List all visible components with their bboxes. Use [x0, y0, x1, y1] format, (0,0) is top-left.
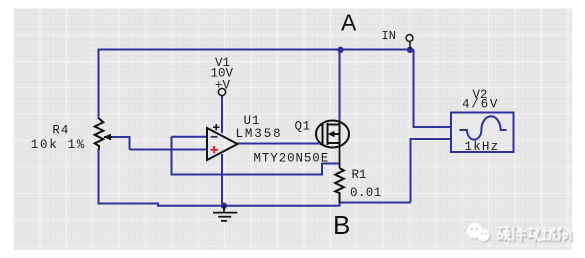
wire inverting input: [172, 136, 207, 138]
transistor Q1 (N-MOSFET): [316, 121, 349, 148]
svg-text:MTY20N50E: MTY20N50E: [254, 152, 330, 166]
watermark text: [497, 227, 573, 243]
svg-text:U1: U1: [244, 114, 261, 128]
wire drain from node A: [339, 50, 341, 123]
wire feedback from source to inverting input: [172, 137, 340, 175]
resistor R1: [335, 168, 344, 203]
wire op-amp output to gate: [237, 143, 319, 145]
wire bottom rail: [98, 203, 411, 206]
wire left vertical upper: [98, 49, 100, 120]
wire non-inverting input: [130, 149, 207, 151]
resistor R4 (potentiometer): [95, 119, 112, 150]
power terminal +V of V1: [218, 88, 225, 95]
svg-text:A: A: [341, 10, 357, 36]
svg-text:R4: R4: [52, 123, 69, 137]
wire right vertical lower: [411, 139, 452, 203]
svg-text:LM358: LM358: [236, 127, 283, 141]
svg-text:R1: R1: [352, 168, 367, 182]
watermark wechat logo: [467, 223, 491, 242]
svg-text:4/6V: 4/6V: [462, 98, 499, 112]
ground: [213, 205, 237, 221]
junction dot at drain node A: [337, 47, 343, 53]
wire left vertical lower: [98, 149, 100, 205]
junction dot at IN node: [407, 47, 413, 53]
wire wiper to non-inverting input: [106, 137, 130, 150]
svg-text:10k 1%: 10k 1%: [31, 138, 86, 152]
wire top rail: [99, 49, 414, 51]
wire right vertical upper: [414, 50, 452, 128]
svg-text:B: B: [333, 210, 350, 240]
svg-text:0.01: 0.01: [350, 186, 382, 200]
svg-text:+V: +V: [215, 79, 231, 93]
op-amp U1: [207, 124, 238, 160]
source V2 box: [451, 113, 514, 155]
terminal IN: [406, 35, 413, 50]
Q1 arrow: [328, 131, 335, 137]
wire op-amp V-: [221, 154, 223, 206]
Q1 source lead: [339, 147, 341, 168]
svg-text:Q1: Q1: [295, 120, 311, 134]
svg-text:1kHz: 1kHz: [465, 140, 500, 154]
svg-text:IN: IN: [382, 29, 396, 43]
wire op-amp V+: [221, 96, 223, 133]
junction dot at ground: [221, 203, 227, 209]
